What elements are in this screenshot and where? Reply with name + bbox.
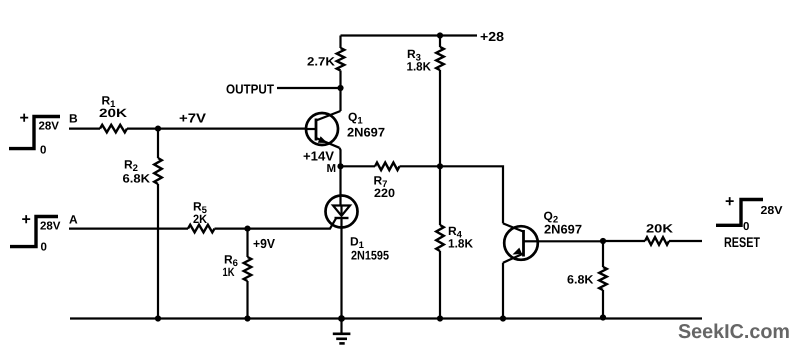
label +28 (480, 29, 504, 44)
label +9V (253, 236, 275, 251)
wire 6.8K to ground rail (602, 290, 604, 318)
wire junction to Q2 collector (440, 166, 503, 223)
svg-text:2.7K: 2.7K (307, 55, 335, 69)
junction node B/R2 (155, 126, 161, 132)
svg-text:+: + (20, 110, 29, 127)
transistor Q1 (306, 111, 341, 148)
wire R2 top (157, 129, 159, 158)
label 0 input A (41, 242, 47, 254)
svg-text:OUTPUT: OUTPUT (226, 82, 274, 97)
resistor 20K (reset) (645, 237, 669, 245)
resistor R3 (436, 47, 444, 70)
resistor R2 (154, 158, 162, 184)
svg-text:0: 0 (41, 242, 47, 254)
junction 6.8K ground (600, 314, 606, 320)
label 6.8K (567, 273, 594, 287)
svg-text:SeekIC.com: SeekIC.com (678, 321, 790, 343)
junction rail R2 (155, 315, 161, 321)
label + reset (725, 194, 734, 211)
wire base node to 20K (603, 240, 645, 242)
svg-text:1.8K: 1.8K (407, 60, 432, 74)
wire R4 to ground rail (439, 251, 441, 319)
svg-text:1.8K: 1.8K (448, 237, 473, 251)
junction rail R6 (244, 315, 250, 321)
wire R7 to junction (400, 165, 441, 167)
label 28V reset (761, 205, 783, 217)
svg-text:28V: 28V (40, 221, 61, 233)
label R2 (124, 158, 138, 175)
label R1 (102, 94, 117, 111)
svg-text:20K: 20K (99, 106, 127, 120)
resistor 6.8K (Q2 base) (599, 267, 607, 290)
resistor R1 (100, 125, 127, 133)
wire junction to R4 (439, 166, 441, 225)
svg-text:2N1595: 2N1595 (351, 249, 389, 263)
svg-text:M: M (327, 163, 337, 175)
wire input B to R1 (69, 128, 100, 130)
wire 6.8K top (602, 241, 604, 267)
input step RESET (716, 200, 763, 226)
svg-text:RESET: RESET (724, 234, 760, 250)
node A (69, 213, 78, 227)
svg-text:+9V: +9V (253, 236, 275, 251)
label +14V (303, 149, 334, 164)
label R7 (374, 174, 388, 191)
wire R5 to SCR gate (215, 218, 337, 229)
svg-text:+28: +28 (480, 29, 504, 44)
resistor 2.7K (337, 48, 345, 71)
ground rail (70, 317, 702, 319)
resistor R4 (436, 225, 444, 251)
label 2.7K (307, 55, 335, 69)
label 2N697 of Q1 (347, 126, 385, 140)
label Q2 (544, 209, 559, 226)
label 2K of R5 (193, 212, 207, 226)
node B (69, 112, 78, 126)
svg-text:220: 220 (374, 186, 395, 200)
junction R3/R7/R4 (437, 163, 443, 169)
svg-text:6.8K: 6.8K (123, 172, 151, 186)
wire R2 to ground rail (157, 184, 159, 319)
input step B (9, 117, 60, 149)
svg-text:2N697: 2N697 (544, 223, 582, 237)
watermark SeekIC.com (678, 321, 790, 343)
svg-text:1K: 1K (223, 265, 235, 279)
label R3 (407, 47, 421, 64)
label OUTPUT (226, 82, 274, 97)
junction rail R4 (437, 315, 443, 321)
junction rail Q2 emitter (500, 315, 506, 321)
label R6 (224, 253, 238, 270)
wire node M to R7 (341, 165, 376, 167)
wire R3 top (439, 36, 441, 48)
SCR D1 (326, 196, 358, 228)
node M junction (337, 163, 343, 169)
label 1.8K of R3 (407, 60, 432, 74)
svg-text:2K: 2K (193, 212, 207, 226)
svg-text:+14V: +14V (303, 149, 334, 164)
label 20K of R1 (99, 106, 127, 120)
junction node +9V (244, 226, 250, 232)
input step A (10, 217, 58, 247)
label 2N697 of Q2 (544, 223, 582, 237)
label + input B (20, 110, 29, 127)
wire SCR cathode to ground rail (340, 218, 342, 319)
wire node M to SCR anode (341, 166, 342, 216)
junction +28 rail / R3 (437, 32, 443, 38)
svg-text:6.8K: 6.8K (567, 273, 594, 287)
resistor R6 (244, 257, 252, 281)
svg-text:2N697: 2N697 (347, 126, 385, 140)
svg-text:20K: 20K (646, 222, 673, 236)
svg-text:0: 0 (40, 145, 46, 157)
svg-text:+: + (22, 212, 31, 229)
wire 2.7K top (339, 36, 341, 49)
svg-text:A: A (69, 213, 78, 227)
label Q1 (348, 110, 363, 127)
svg-text:+: + (725, 194, 734, 211)
label 28V input A (40, 221, 61, 233)
label 20K of reset resistor (646, 222, 673, 236)
wire Q1 emitter to node M (340, 148, 341, 167)
label 1K of R6 (223, 265, 235, 279)
label + input A (22, 212, 31, 229)
junction OUTPUT node (337, 85, 343, 91)
label M (327, 163, 337, 175)
wire 2.7K to Q1 collector (339, 71, 341, 112)
label D1 (350, 235, 365, 252)
resistor R5 (188, 225, 215, 233)
wire input A to R5 (69, 228, 188, 230)
wire Q2 emitter to ground rail (502, 263, 504, 319)
svg-text:0: 0 (743, 221, 749, 233)
ground symbol (333, 319, 351, 344)
svg-text:B: B (69, 112, 78, 126)
label 1.8K of R4 (448, 237, 473, 251)
label 220 of R7 (374, 186, 395, 200)
label 6.8K of R2 (123, 172, 151, 186)
junction Q2 base node (600, 238, 606, 244)
wire R6 to ground rail (246, 281, 248, 319)
wire R3 to node R7 (439, 70, 441, 166)
label 0 input B (40, 145, 46, 157)
label 0 reset (743, 221, 749, 233)
wire R1 to Q1 base (127, 128, 307, 130)
label +7V (179, 111, 206, 126)
label R4 (448, 224, 463, 241)
wire 20K to reset terminal (669, 240, 702, 242)
svg-text:+7V: +7V (179, 111, 206, 126)
resistor R7 (375, 163, 400, 171)
wire OUTPUT lead (277, 87, 341, 89)
label RESET (724, 234, 760, 250)
wire R6 top (246, 229, 248, 257)
label 2N1595 of D1 (351, 249, 389, 263)
svg-text:28V: 28V (761, 205, 783, 217)
label 28V input B (39, 121, 60, 133)
junction rail SCR/ground (338, 315, 345, 322)
label R5 (193, 200, 208, 217)
wire Q2 base to node (538, 240, 603, 242)
power rail +28 (341, 34, 478, 36)
transistor Q2 (503, 223, 538, 262)
svg-text:28V: 28V (39, 121, 60, 133)
